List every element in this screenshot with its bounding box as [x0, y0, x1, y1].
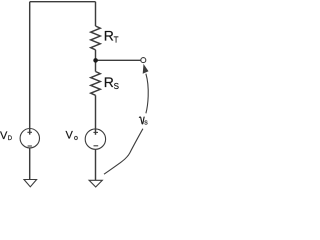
voltage source VD circle	[20, 129, 39, 148]
ground symbol VD	[24, 180, 37, 187]
svg-text:R: R	[104, 74, 114, 90]
wire top horizontal	[30, 1, 96, 3]
wire Vo to ground	[95, 149, 97, 180]
svg-text:T: T	[114, 36, 119, 45]
svg-text:V: V	[66, 130, 74, 142]
curved arrow vs (shaft lower segment)	[104, 129, 143, 175]
VD minus sign	[28, 145, 32, 147]
label vs	[139, 117, 144, 124]
resistor RT	[91, 26, 101, 50]
resistor RS	[91, 72, 101, 96]
svg-text:s: s	[144, 120, 148, 127]
wire right vertical (top lead of RT)	[95, 2, 97, 26]
ground symbol Vo	[89, 180, 102, 187]
output terminal open circle	[141, 58, 146, 63]
wire node to RS	[95, 60, 97, 71]
node A junction dot	[93, 58, 98, 63]
VD plus sign	[27, 131, 32, 133]
wire RT to node	[95, 50, 97, 61]
svg-text:D: D	[8, 136, 13, 142]
wire left vertical	[29, 2, 31, 135]
svg-text:o: o	[74, 135, 78, 142]
Vo plus sign	[93, 131, 98, 133]
svg-text:S: S	[114, 82, 119, 91]
wire node to output terminal	[96, 59, 141, 61]
voltage source Vo circle	[85, 129, 105, 149]
wire RS to Vo source	[95, 95, 97, 135]
curved arrow vs (arrowhead)	[143, 64, 149, 74]
wire VD to ground	[29, 148, 31, 180]
svg-text:R: R	[104, 28, 114, 44]
Vo minus sign	[94, 145, 99, 147]
curved arrow vs (shaft upper segment)	[146, 74, 148, 114]
